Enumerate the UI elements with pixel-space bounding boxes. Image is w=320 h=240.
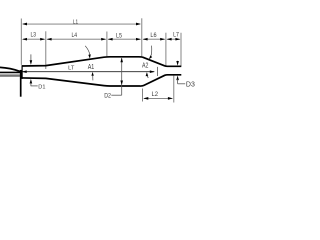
dimension L2 bbox=[144, 97, 172, 99]
profile bottom edge bbox=[22, 75, 181, 86]
small up arrow stub bbox=[147, 76, 148, 79]
svg-text:L7: L7 bbox=[173, 32, 179, 38]
svg-text:L4: L4 bbox=[72, 33, 78, 39]
D2 leader horizontal bbox=[111, 94, 121, 96]
A2 leader arrowhead bbox=[149, 55, 152, 59]
svg-text:L6: L6 bbox=[150, 33, 157, 39]
tool arc edge bbox=[0, 67, 20, 71]
A1 leader curve bbox=[85, 46, 90, 55]
dimension D3 lower arrow bbox=[176, 76, 179, 81]
tool thin line 1 bbox=[0, 74, 20, 76]
dimension L7 bbox=[167, 38, 180, 40]
tool top line bbox=[0, 71, 20, 73]
profile top edge bbox=[22, 57, 181, 67]
dimension D3 upper arrow bbox=[177, 61, 179, 63]
extension line x173.8 below bbox=[173, 76, 175, 103]
svg-text:D2: D2 bbox=[104, 92, 111, 99]
extension line x45.8 bbox=[45, 31, 47, 69]
dimension L4 bbox=[47, 38, 105, 40]
extension line x141.8 bbox=[141, 18, 143, 56]
dimension D1 upper arrow bbox=[30, 54, 32, 61]
centerline left arrow bbox=[22, 70, 27, 73]
dimension L1 arrows bbox=[22, 23, 141, 26]
A1 angle arrow at centerline bbox=[91, 72, 93, 76]
D3 leader horizontal bbox=[178, 83, 186, 85]
tool face vertical bbox=[20, 70, 22, 97]
extension line x181 bbox=[180, 33, 182, 66]
extension line x165.9 bbox=[165, 33, 167, 66]
dimension L6 bbox=[143, 38, 164, 40]
svg-text:LT: LT bbox=[68, 66, 75, 72]
svg-text:L1: L1 bbox=[73, 20, 78, 26]
extension line x142.5 below bbox=[142, 89, 144, 102]
svg-text:A2: A2 bbox=[142, 62, 148, 69]
dimension D1 lower arrow bbox=[30, 79, 33, 84]
dimension L5 bbox=[108, 38, 140, 40]
A2 leader curve bbox=[150, 46, 153, 56]
centerline right arrow bbox=[150, 70, 155, 73]
svg-text:L5: L5 bbox=[116, 33, 123, 39]
svg-text:L2: L2 bbox=[152, 92, 159, 98]
dimension L1 line bbox=[23, 23, 140, 25]
A1 leader arrowhead bbox=[88, 54, 91, 58]
svg-text:D3: D3 bbox=[186, 82, 195, 89]
small up arrow at centerline bbox=[146, 72, 149, 76]
LT end vertical line bbox=[157, 67, 159, 76]
A1 angle arrow stem bbox=[92, 75, 94, 80]
extension line left x21.3 bbox=[20, 19, 22, 65]
svg-text:A1: A1 bbox=[88, 62, 95, 71]
centerline LT bbox=[23, 71, 155, 73]
tool thin line 2 bbox=[0, 75, 20, 77]
dimension D2 line bbox=[121, 58, 123, 95]
svg-text:L3: L3 bbox=[31, 33, 37, 39]
dimension L3 bbox=[23, 38, 45, 40]
svg-text:D1: D1 bbox=[38, 84, 45, 90]
extension line x106.9 bbox=[106, 32, 108, 57]
profile left end edge bbox=[21, 65, 23, 79]
D1 leader horizontal bbox=[31, 85, 38, 87]
